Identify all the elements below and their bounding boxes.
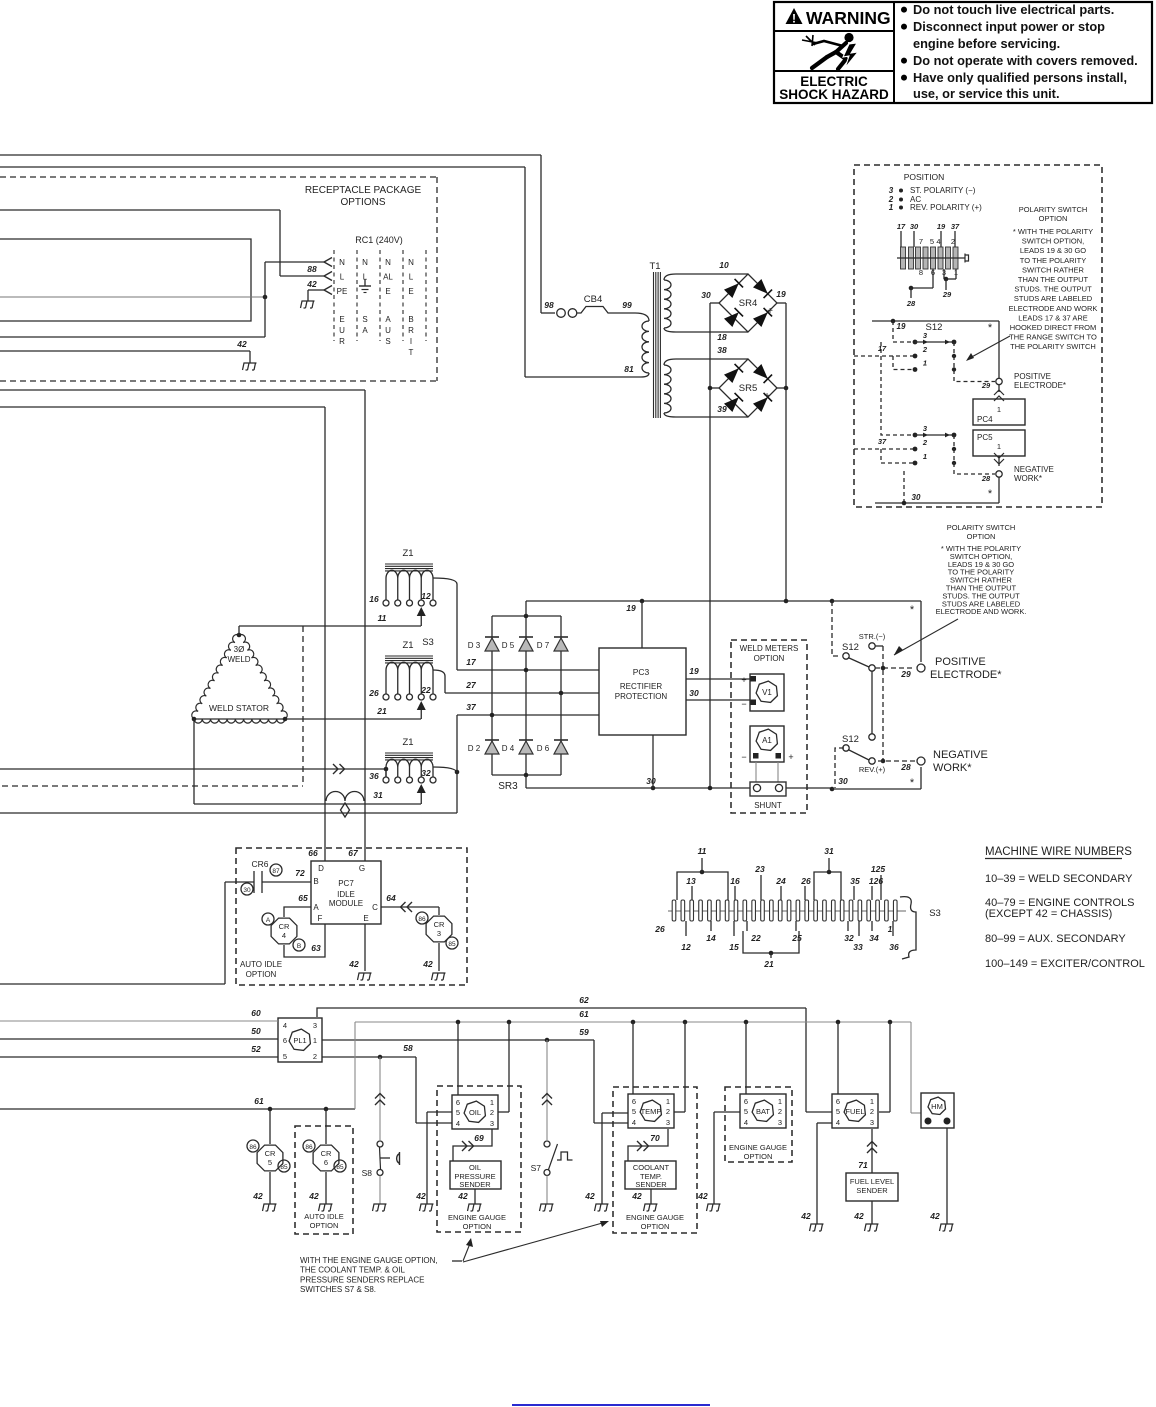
svg-text:Have only qualified persons in: Have only qualified persons install, xyxy=(913,70,1127,85)
svg-text:69: 69 xyxy=(474,1133,484,1143)
svg-text:L: L xyxy=(409,273,414,282)
svg-text:5: 5 xyxy=(930,237,934,246)
svg-text:15: 15 xyxy=(729,942,739,952)
svg-text:−: − xyxy=(741,752,746,762)
svg-text:RECEPTACLE PACKAGE: RECEPTACLE PACKAGE xyxy=(305,185,422,196)
svg-text:6: 6 xyxy=(744,1097,748,1106)
svg-text:SENDER: SENDER xyxy=(856,1186,888,1195)
svg-text:17: 17 xyxy=(897,222,906,231)
svg-text:66: 66 xyxy=(308,848,318,858)
svg-text:S: S xyxy=(362,315,367,324)
svg-text:3: 3 xyxy=(889,186,894,195)
svg-text:30: 30 xyxy=(243,887,251,894)
svg-text:OPTION: OPTION xyxy=(967,532,996,541)
svg-text:Disconnect input power or stop: Disconnect input power or stop xyxy=(913,19,1105,34)
svg-text:PC7: PC7 xyxy=(338,879,354,888)
svg-text:MODULE: MODULE xyxy=(329,899,363,908)
svg-text:4: 4 xyxy=(744,1118,748,1127)
svg-text:WORK*: WORK* xyxy=(933,762,972,774)
svg-text:V1: V1 xyxy=(762,688,772,697)
svg-text:52: 52 xyxy=(251,1044,261,1054)
svg-text:24: 24 xyxy=(775,876,786,886)
svg-text:30: 30 xyxy=(912,493,921,502)
svg-text:NEGATIVE: NEGATIVE xyxy=(933,749,988,761)
svg-text:28: 28 xyxy=(981,474,991,483)
svg-text:3: 3 xyxy=(778,1118,782,1127)
svg-text:+: + xyxy=(741,675,746,685)
svg-text:FUEL LEVEL: FUEL LEVEL xyxy=(850,1177,894,1186)
svg-text:6: 6 xyxy=(324,1158,328,1167)
svg-text:19: 19 xyxy=(689,666,699,676)
svg-text:42: 42 xyxy=(236,339,247,349)
svg-text:+: + xyxy=(764,391,770,402)
svg-text:RECTIFIER: RECTIFIER xyxy=(620,682,662,691)
svg-text:4: 4 xyxy=(456,1119,460,1128)
svg-text:61: 61 xyxy=(579,1009,589,1019)
svg-text:A: A xyxy=(362,326,368,335)
svg-text:7: 7 xyxy=(919,237,923,246)
svg-text:OIL: OIL xyxy=(469,1163,481,1172)
svg-text:ELECTRODE*: ELECTRODE* xyxy=(1014,381,1066,390)
svg-text:63: 63 xyxy=(311,943,321,953)
svg-text:WELD STATOR: WELD STATOR xyxy=(209,703,269,713)
svg-text:PROTECTION: PROTECTION xyxy=(615,692,668,701)
svg-text:6: 6 xyxy=(456,1098,460,1107)
svg-text:22: 22 xyxy=(750,933,761,943)
svg-text:17: 17 xyxy=(466,657,477,667)
svg-text:38: 38 xyxy=(717,345,727,355)
svg-text:2: 2 xyxy=(922,438,928,447)
svg-text:C: C xyxy=(372,903,378,912)
svg-text:5: 5 xyxy=(744,1107,748,1116)
svg-text:3: 3 xyxy=(870,1118,874,1127)
svg-text:67: 67 xyxy=(348,848,359,858)
svg-text:LEADS 19 & 30 GO: LEADS 19 & 30 GO xyxy=(1020,246,1086,255)
svg-text:POSITIVE: POSITIVE xyxy=(935,656,986,668)
svg-text:PC4: PC4 xyxy=(977,415,993,424)
svg-text:3: 3 xyxy=(313,1021,317,1030)
svg-text:B: B xyxy=(313,877,318,886)
svg-text:2: 2 xyxy=(922,345,928,354)
svg-text:22: 22 xyxy=(420,685,431,695)
svg-text:AL: AL xyxy=(383,273,393,282)
svg-text:6: 6 xyxy=(632,1097,636,1106)
svg-text:OPTION: OPTION xyxy=(1039,214,1068,223)
svg-text:OPTION: OPTION xyxy=(246,970,277,979)
svg-text:37: 37 xyxy=(951,222,960,231)
svg-text:6: 6 xyxy=(836,1097,840,1106)
svg-text:58: 58 xyxy=(403,1043,413,1053)
svg-text:8: 8 xyxy=(919,268,923,277)
svg-text:29: 29 xyxy=(942,290,952,299)
svg-text:POLARITY SWITCH: POLARITY SWITCH xyxy=(947,523,1016,532)
svg-text:1: 1 xyxy=(870,1097,874,1106)
svg-text:POSITION: POSITION xyxy=(904,172,945,182)
svg-text:A1: A1 xyxy=(762,736,772,745)
svg-text:19: 19 xyxy=(626,603,636,613)
svg-text:L: L xyxy=(340,273,345,282)
svg-text:PC5: PC5 xyxy=(977,433,993,442)
svg-text:OIL: OIL xyxy=(469,1108,481,1117)
svg-text:18: 18 xyxy=(717,332,727,342)
svg-text:A: A xyxy=(313,903,319,912)
svg-text:WELD: WELD xyxy=(227,655,250,664)
svg-text:3: 3 xyxy=(437,929,441,938)
svg-text:16: 16 xyxy=(730,876,740,886)
svg-text:2: 2 xyxy=(313,1052,317,1061)
svg-text:42: 42 xyxy=(631,1191,642,1201)
svg-text:*: * xyxy=(910,777,915,789)
svg-text:OPTIONS: OPTIONS xyxy=(340,197,385,208)
svg-text:36: 36 xyxy=(369,771,379,781)
svg-text:80–99 = AUX. SECONDARY: 80–99 = AUX. SECONDARY xyxy=(985,933,1126,945)
svg-text:2: 2 xyxy=(490,1108,494,1117)
svg-text:Z1: Z1 xyxy=(402,548,413,559)
svg-text:125: 125 xyxy=(871,864,885,874)
svg-text:2: 2 xyxy=(666,1107,670,1116)
svg-text:13: 13 xyxy=(686,876,696,886)
svg-text:5: 5 xyxy=(456,1108,460,1117)
svg-text:12: 12 xyxy=(421,591,431,601)
svg-text:S3: S3 xyxy=(929,908,941,919)
svg-text:31: 31 xyxy=(824,846,834,856)
svg-text:IDLE: IDLE xyxy=(337,890,355,899)
svg-text:THE COOLANT TEMP. & OIL: THE COOLANT TEMP. & OIL xyxy=(300,1266,405,1275)
svg-text:N: N xyxy=(362,258,368,267)
svg-text:U: U xyxy=(385,326,391,335)
svg-text:42: 42 xyxy=(348,959,359,969)
svg-text:4: 4 xyxy=(632,1118,636,1127)
svg-text:D 2: D 2 xyxy=(468,744,481,753)
svg-text:+: + xyxy=(767,306,773,317)
svg-text:T: T xyxy=(409,348,414,357)
svg-text:5: 5 xyxy=(268,1158,272,1167)
svg-text:(EXCEPT 42 = CHASSIS): (EXCEPT 42 = CHASSIS) xyxy=(985,908,1112,920)
svg-text:4: 4 xyxy=(282,931,286,940)
svg-text:25: 25 xyxy=(791,933,802,943)
svg-text:50: 50 xyxy=(251,1026,261,1036)
svg-text:E: E xyxy=(363,914,368,923)
svg-text:CB4: CB4 xyxy=(584,294,602,305)
svg-text:4: 4 xyxy=(836,1118,840,1127)
svg-text:42: 42 xyxy=(306,279,317,289)
svg-text:SENDER: SENDER xyxy=(459,1180,491,1189)
svg-text:39: 39 xyxy=(717,404,727,414)
svg-text:87: 87 xyxy=(272,868,280,875)
svg-text:2: 2 xyxy=(870,1107,874,1116)
svg-text:SWITCH RATHER: SWITCH RATHER xyxy=(1022,265,1085,274)
svg-text:ENGINE GAUGE: ENGINE GAUGE xyxy=(729,1143,787,1152)
svg-text:42: 42 xyxy=(929,1211,940,1221)
svg-text:E: E xyxy=(408,287,413,296)
svg-text:6: 6 xyxy=(283,1036,287,1045)
svg-text:37: 37 xyxy=(466,702,477,712)
svg-text:32: 32 xyxy=(421,768,431,778)
svg-text:OPTION: OPTION xyxy=(754,654,785,663)
svg-text:42: 42 xyxy=(422,959,433,969)
svg-text:19: 19 xyxy=(937,222,946,231)
svg-text:30: 30 xyxy=(646,776,656,786)
svg-text:10: 10 xyxy=(719,260,729,270)
svg-text:POSITIVE: POSITIVE xyxy=(1014,372,1051,381)
svg-text:1: 1 xyxy=(313,1036,317,1045)
svg-text:THE POLARITY SWITCH: THE POLARITY SWITCH xyxy=(1010,342,1096,351)
svg-text:86: 86 xyxy=(305,1144,313,1151)
svg-text:AUTO IDLE: AUTO IDLE xyxy=(240,960,282,969)
svg-text:R: R xyxy=(339,337,345,346)
svg-text:26: 26 xyxy=(368,688,379,698)
svg-text:STUDS. THE OUTPUT: STUDS. THE OUTPUT xyxy=(1014,285,1092,294)
svg-text:AUTO IDLE: AUTO IDLE xyxy=(304,1212,343,1221)
svg-text:3: 3 xyxy=(490,1119,494,1128)
svg-text:3Ø: 3Ø xyxy=(234,645,245,654)
svg-text:30: 30 xyxy=(689,688,699,698)
svg-text:WARNING: WARNING xyxy=(806,8,891,28)
svg-text:SWITCHES S7 & S8.: SWITCHES S7 & S8. xyxy=(300,1285,376,1294)
svg-text:*: * xyxy=(910,604,915,616)
svg-text:!: ! xyxy=(792,12,796,26)
svg-text:62: 62 xyxy=(579,995,589,1005)
svg-text:SR4: SR4 xyxy=(739,298,757,309)
svg-text:86: 86 xyxy=(418,916,426,923)
svg-text:37: 37 xyxy=(878,437,887,446)
svg-text:42: 42 xyxy=(308,1191,319,1201)
svg-text:S3: S3 xyxy=(422,637,434,648)
svg-text:12: 12 xyxy=(681,942,691,952)
svg-text:14: 14 xyxy=(706,933,716,943)
svg-text:86: 86 xyxy=(249,1144,257,1151)
svg-text:33: 33 xyxy=(853,942,863,952)
svg-text:42: 42 xyxy=(800,1211,811,1221)
svg-text:42: 42 xyxy=(415,1191,426,1201)
svg-text:D 7: D 7 xyxy=(537,641,550,650)
svg-text:*: * xyxy=(988,488,993,500)
svg-text:65: 65 xyxy=(298,893,308,903)
svg-text:Z1: Z1 xyxy=(402,640,413,651)
svg-text:26: 26 xyxy=(800,876,811,886)
svg-text:PRESSURE SENDERS REPLACE: PRESSURE SENDERS REPLACE xyxy=(300,1275,424,1284)
svg-text:OPTION: OPTION xyxy=(641,1222,670,1231)
svg-text:THAN THE OUTPUT: THAN THE OUTPUT xyxy=(1018,275,1089,284)
svg-text:88: 88 xyxy=(307,264,317,274)
svg-text:SHOCK HAZARD: SHOCK HAZARD xyxy=(779,87,889,102)
svg-text:72: 72 xyxy=(295,868,305,878)
svg-text:16: 16 xyxy=(369,594,379,604)
svg-text:85: 85 xyxy=(448,941,456,948)
svg-text:SHUNT: SHUNT xyxy=(754,801,782,810)
svg-text:TO THE POLARITY: TO THE POLARITY xyxy=(1020,256,1086,265)
svg-text:A: A xyxy=(266,917,271,924)
svg-text:21: 21 xyxy=(376,706,387,716)
svg-text:34: 34 xyxy=(869,933,879,943)
svg-text:85: 85 xyxy=(336,1164,344,1171)
svg-text:D 4: D 4 xyxy=(502,744,515,753)
svg-text:1: 1 xyxy=(923,452,927,461)
svg-text:+: + xyxy=(788,752,793,762)
svg-text:ENGINE GAUGE: ENGINE GAUGE xyxy=(448,1213,506,1222)
svg-text:ELECTRODE*: ELECTRODE* xyxy=(930,669,1002,681)
svg-text:STUDS ARE LABELED: STUDS ARE LABELED xyxy=(1014,294,1093,303)
svg-text:* WITH THE POLARITY: * WITH THE POLARITY xyxy=(1013,227,1093,236)
svg-text:28: 28 xyxy=(900,762,911,772)
svg-text:70: 70 xyxy=(650,1133,660,1143)
svg-text:4: 4 xyxy=(936,237,940,246)
svg-text:COOLANT: COOLANT xyxy=(633,1163,670,1172)
svg-text:S8: S8 xyxy=(362,1168,373,1178)
svg-text:NEGATIVE: NEGATIVE xyxy=(1014,465,1054,474)
svg-text:98: 98 xyxy=(544,300,554,310)
svg-text:SWITCH OPTION,: SWITCH OPTION, xyxy=(1022,237,1085,246)
svg-text:29: 29 xyxy=(981,381,991,390)
svg-text:G: G xyxy=(359,864,365,873)
svg-text:42: 42 xyxy=(584,1191,595,1201)
svg-text:1: 1 xyxy=(889,203,894,212)
svg-text:OPTION: OPTION xyxy=(463,1222,492,1231)
svg-text:42: 42 xyxy=(853,1211,864,1221)
svg-text:1: 1 xyxy=(778,1097,782,1106)
svg-text:CR: CR xyxy=(279,922,290,931)
svg-text:11: 11 xyxy=(698,846,707,856)
svg-text:*: * xyxy=(988,322,993,334)
svg-text:WITH THE ENGINE GAUGE OPTI: WITH THE ENGINE GAUGE OPTION, xyxy=(300,1256,438,1265)
svg-text:4: 4 xyxy=(283,1021,287,1030)
svg-text:R: R xyxy=(408,326,414,335)
svg-text:SR3: SR3 xyxy=(498,781,518,792)
svg-text:WORK*: WORK* xyxy=(1014,474,1042,483)
svg-text:ST. POLARITY (−): ST. POLARITY (−) xyxy=(910,186,976,195)
svg-text:64: 64 xyxy=(386,893,396,903)
svg-text:LEADS 17 & 37 ARE: LEADS 17 & 37 ARE xyxy=(1018,313,1088,322)
svg-text:OPTION: OPTION xyxy=(744,1152,773,1161)
svg-text:CR: CR xyxy=(265,1149,276,1158)
svg-text:B: B xyxy=(297,943,301,950)
svg-text:10–39 = WELD SECONDARY: 10–39 = WELD SECONDARY xyxy=(985,873,1133,885)
svg-text:42: 42 xyxy=(697,1191,708,1201)
svg-text:E: E xyxy=(339,315,344,324)
svg-text:POLARITY SWITCH: POLARITY SWITCH xyxy=(1019,205,1088,214)
svg-text:19: 19 xyxy=(776,289,786,299)
svg-text:HM: HM xyxy=(931,1102,943,1111)
svg-text:BAT: BAT xyxy=(756,1107,770,1116)
svg-text:126: 126 xyxy=(869,876,883,886)
svg-text:3: 3 xyxy=(923,424,928,433)
svg-text:S12: S12 xyxy=(926,322,943,333)
svg-text:I: I xyxy=(410,337,412,346)
svg-text:D 5: D 5 xyxy=(502,641,515,650)
svg-text:THE RANGE SWITCH TO: THE RANGE SWITCH TO xyxy=(1009,333,1097,342)
svg-text:5: 5 xyxy=(283,1052,287,1061)
svg-text:60: 60 xyxy=(251,1008,261,1018)
svg-text:REV.(+): REV.(+) xyxy=(859,765,886,774)
svg-text:Do not touch live electrical p: Do not touch live electrical parts. xyxy=(913,2,1114,17)
svg-text:29: 29 xyxy=(900,669,911,679)
svg-text:71: 71 xyxy=(858,1160,868,1170)
svg-text:ELECTRODE AND WORK.: ELECTRODE AND WORK. xyxy=(936,607,1027,616)
svg-text:27: 27 xyxy=(465,680,477,690)
svg-text:S7: S7 xyxy=(531,1163,542,1173)
svg-text:1: 1 xyxy=(666,1097,670,1106)
svg-text:use, or service this unit.: use, or service this unit. xyxy=(913,86,1060,101)
svg-text:61: 61 xyxy=(254,1096,264,1106)
svg-text:1: 1 xyxy=(490,1098,494,1107)
svg-text:42: 42 xyxy=(252,1191,263,1201)
svg-text:T1: T1 xyxy=(649,261,660,272)
svg-text:N: N xyxy=(339,258,345,267)
svg-text:HOOKED DIRECT FROM: HOOKED DIRECT FROM xyxy=(1010,323,1097,332)
svg-text:ENGINE GAUGE: ENGINE GAUGE xyxy=(626,1213,684,1222)
svg-text:30: 30 xyxy=(910,222,919,231)
svg-text:2: 2 xyxy=(951,237,955,246)
svg-text:SENDER: SENDER xyxy=(635,1180,667,1189)
svg-text:2: 2 xyxy=(778,1107,782,1116)
svg-text:CR6: CR6 xyxy=(251,859,268,869)
svg-text:1: 1 xyxy=(888,925,893,934)
svg-text:21: 21 xyxy=(763,959,774,969)
svg-text:CR: CR xyxy=(321,1149,332,1158)
svg-text:30: 30 xyxy=(701,290,711,300)
svg-text:1: 1 xyxy=(997,442,1001,451)
svg-text:D 6: D 6 xyxy=(537,744,550,753)
svg-text:PC3: PC3 xyxy=(633,667,650,677)
svg-text:31: 31 xyxy=(373,790,383,800)
svg-text:19: 19 xyxy=(897,322,906,331)
svg-text:28: 28 xyxy=(906,299,916,308)
svg-text:N: N xyxy=(408,258,414,267)
svg-text:5: 5 xyxy=(632,1107,636,1116)
svg-text:U: U xyxy=(339,326,345,335)
svg-text:D 3: D 3 xyxy=(468,641,481,650)
svg-text:5: 5 xyxy=(836,1107,840,1116)
svg-text:CR: CR xyxy=(434,920,445,929)
svg-text:30: 30 xyxy=(838,776,848,786)
svg-text:REV. POLARITY (+): REV. POLARITY (+) xyxy=(910,203,982,212)
svg-text:D: D xyxy=(318,864,324,873)
svg-text:PL1: PL1 xyxy=(293,1036,306,1045)
svg-text:A: A xyxy=(385,315,391,324)
svg-text:11: 11 xyxy=(378,613,387,623)
svg-text:36: 36 xyxy=(889,942,899,952)
svg-text:B: B xyxy=(408,315,413,324)
svg-text:WELD METERS: WELD METERS xyxy=(740,644,799,653)
svg-text:STR.(−): STR.(−) xyxy=(859,632,886,641)
svg-text:ELECTRODE AND WORK: ELECTRODE AND WORK xyxy=(1009,304,1098,313)
svg-text:S12: S12 xyxy=(842,642,859,653)
svg-text:Do not operate with covers rem: Do not operate with covers removed. xyxy=(913,53,1138,68)
svg-text:engine before servicing.: engine before servicing. xyxy=(913,36,1060,51)
svg-text:−: − xyxy=(741,699,746,709)
svg-text:99: 99 xyxy=(622,300,632,310)
svg-text:35: 35 xyxy=(850,876,860,886)
svg-text:1: 1 xyxy=(997,405,1001,414)
svg-text:N: N xyxy=(385,258,391,267)
svg-text:85: 85 xyxy=(280,1164,288,1171)
svg-text:SR5: SR5 xyxy=(739,383,757,394)
svg-text:1: 1 xyxy=(923,359,927,368)
svg-text:S12: S12 xyxy=(842,734,859,745)
svg-text:E: E xyxy=(385,287,390,296)
svg-text:23: 23 xyxy=(754,864,765,874)
svg-text:OPTION: OPTION xyxy=(310,1221,339,1230)
svg-text:26: 26 xyxy=(654,924,665,934)
svg-text:PE: PE xyxy=(337,287,348,296)
svg-text:81: 81 xyxy=(624,364,634,374)
svg-text:100–149 = EXCITER/CONTROL: 100–149 = EXCITER/CONTROL xyxy=(985,958,1145,970)
svg-text:Z1: Z1 xyxy=(402,737,413,748)
svg-text:FUEL: FUEL xyxy=(845,1107,864,1116)
svg-text:3: 3 xyxy=(666,1118,670,1127)
svg-text:S: S xyxy=(385,337,390,346)
svg-text:F: F xyxy=(318,914,323,923)
